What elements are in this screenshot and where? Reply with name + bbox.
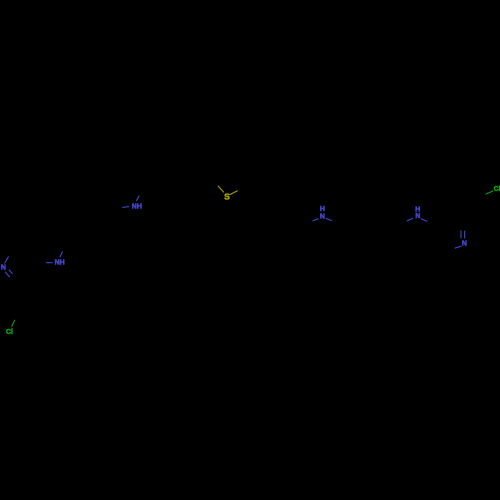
svg-text:N: N: [415, 213, 420, 220]
bond N6=C2' double right line: [464, 231, 466, 239]
svg-text:N: N: [320, 214, 325, 221]
bond S-CH2 upleft stub: [218, 186, 224, 193]
bond N3-CH2 right stub: [136, 196, 139, 201]
bond N6=C2' double left line: [460, 231, 462, 239]
bond S-CH2 right stub: [230, 191, 238, 195]
bond N6-C8a stub: [455, 246, 462, 248]
svg-text:Cl: Cl: [494, 186, 500, 193]
bond Cl-C7 stub: [12, 320, 15, 327]
bond Cl-C7 right stub: [486, 191, 494, 195]
bond N1=C2 double outer: [5, 272, 10, 277]
svg-text:N: N: [462, 241, 467, 248]
bond N1=C2 double inner: [9, 270, 13, 274]
bond N4-CH2 right stub: [326, 218, 332, 220]
svg-text:H: H: [320, 206, 325, 213]
svg-text:Cl: Cl: [6, 329, 13, 336]
svg-text:S: S: [224, 192, 230, 202]
svg-text:N: N: [1, 265, 6, 272]
bond N1-C8a stub: [5, 257, 9, 264]
bond N4-CH2 left stub: [313, 219, 319, 221]
svg-text:NH: NH: [55, 260, 65, 267]
svg-text:NH: NH: [132, 203, 142, 210]
bond N5-C4' right stub: [421, 219, 427, 222]
bond N2-C4 stub: [46, 262, 53, 264]
bond N3-CH2 left stub: [122, 206, 129, 209]
bond N5-CH2 left stub: [407, 218, 413, 221]
bond N2-CH2 stub: [60, 252, 63, 258]
